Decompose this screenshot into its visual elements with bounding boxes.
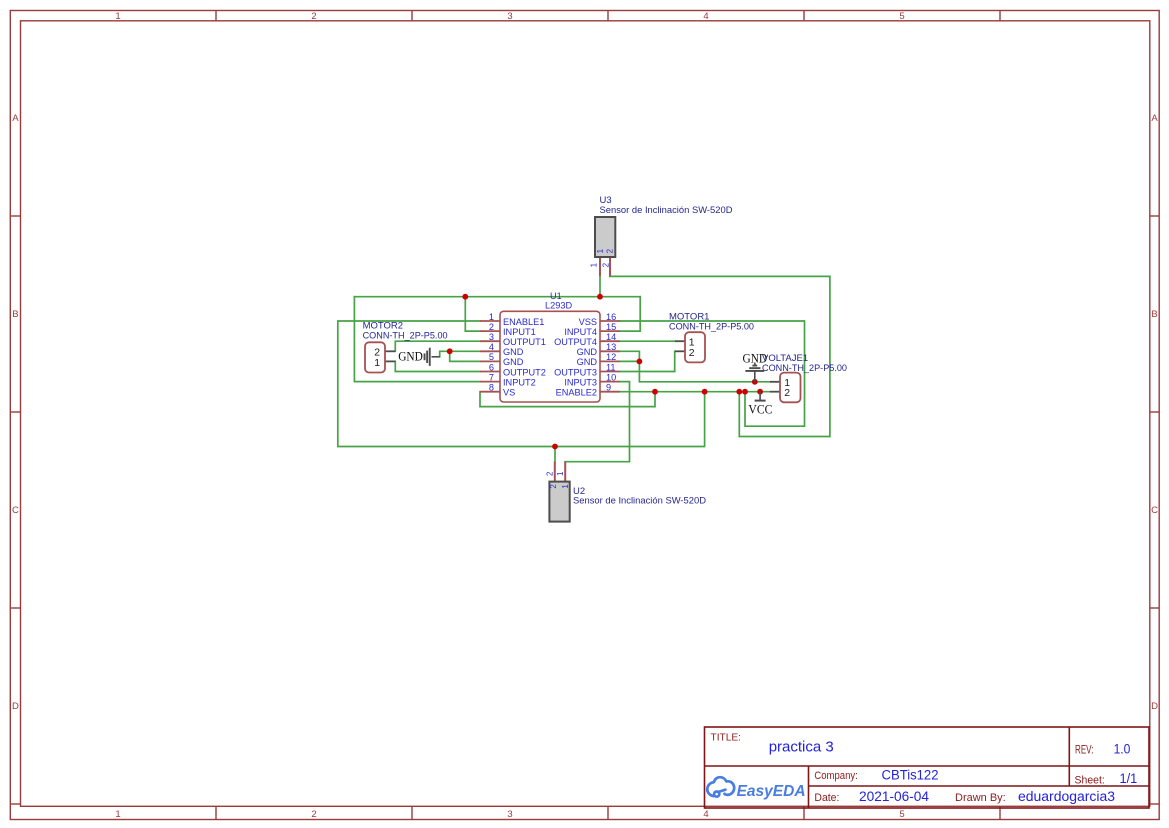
WIRES xyxy=(338,276,830,462)
svg-text:3: 3 xyxy=(507,809,512,820)
svg-text:6: 6 xyxy=(489,362,494,372)
svg-text:2: 2 xyxy=(545,471,554,476)
wire VCC row pin9 to VOLTAJE1 pin2 xyxy=(620,391,770,393)
svg-text:ENABLE2: ENABLE2 xyxy=(556,388,597,398)
svg-text:VSS: VSS xyxy=(579,317,597,327)
svg-text:CONN-TH_2P-P5.00: CONN-TH_2P-P5.00 xyxy=(669,321,754,332)
svg-text:B: B xyxy=(12,309,18,320)
junction dots xyxy=(447,294,763,450)
svg-text:D: D xyxy=(12,701,19,712)
node rail-U3pin1 xyxy=(597,294,603,300)
svg-text:2: 2 xyxy=(784,387,790,399)
svg-text:12: 12 xyxy=(606,352,616,362)
svg-text:3: 3 xyxy=(507,11,512,22)
wire INPUT1 pin2 branch xyxy=(465,297,480,331)
svg-text:14: 14 xyxy=(606,332,616,342)
svg-text:15: 15 xyxy=(606,322,616,332)
node bottomrail-U2pin2 xyxy=(552,444,558,450)
svg-text:9: 9 xyxy=(606,383,611,393)
sensor U2 xyxy=(545,462,706,522)
wire U3 pin1 branch xyxy=(599,276,601,297)
svg-text:5: 5 xyxy=(489,352,494,362)
connector MOTOR1 xyxy=(669,312,754,363)
svg-text:13: 13 xyxy=(606,342,616,352)
svg-text:Sensor de Inclinación SW-520D: Sensor de Inclinación SW-520D xyxy=(573,496,706,507)
svg-text:Sensor de Inclinación SW-520D: Sensor de Inclinación SW-520D xyxy=(600,205,733,216)
svg-text:INPUT4: INPUT4 xyxy=(564,327,597,337)
wire INPUT2 pin7 to rail xyxy=(354,297,480,382)
svg-text:1: 1 xyxy=(115,11,120,22)
svg-text:REV:: REV: xyxy=(1075,744,1094,757)
svg-text:INPUT3: INPUT3 xyxy=(564,377,597,387)
svg-text:1.0: 1.0 xyxy=(1114,742,1131,757)
svg-text:practica 3: practica 3 xyxy=(769,738,834,755)
node GND-pin4 xyxy=(447,348,453,354)
svg-text:GND: GND xyxy=(503,347,524,357)
wire U2 pin2 branch xyxy=(554,447,556,462)
svg-text:2: 2 xyxy=(689,347,695,359)
wire pin12 branch xyxy=(620,360,639,362)
svg-text:2: 2 xyxy=(311,11,316,22)
node GNDflag-VOLTAJE1pin1 xyxy=(752,379,758,385)
wire left GND to pin5 xyxy=(450,351,480,361)
connector VOLTAJE1 xyxy=(762,353,847,402)
svg-text:INPUT2: INPUT2 xyxy=(503,377,536,387)
svg-text:4: 4 xyxy=(489,342,494,352)
svg-text:16: 16 xyxy=(606,312,616,322)
svg-text:OUTPUT4: OUTPUT4 xyxy=(554,337,597,347)
svg-text:2: 2 xyxy=(601,262,610,267)
svg-text:1: 1 xyxy=(374,357,380,369)
svg-text:10: 10 xyxy=(606,372,616,382)
svg-text:1: 1 xyxy=(489,312,494,322)
svg-text:GND: GND xyxy=(398,350,423,364)
svg-text:TITLE:: TITLE: xyxy=(711,732,742,743)
svg-text:4: 4 xyxy=(703,11,708,22)
svg-text:4: 4 xyxy=(703,809,708,820)
svg-text:D: D xyxy=(1151,701,1158,712)
svg-text:11: 11 xyxy=(606,362,616,372)
svg-text:OUTPUT2: OUTPUT2 xyxy=(503,367,546,377)
svg-text:2021-06-04: 2021-06-04 xyxy=(859,789,930,804)
svg-text:Sheet:: Sheet: xyxy=(1075,775,1105,787)
svg-text:GND: GND xyxy=(577,357,598,367)
wire GND pins 13-12 to VOLTAJE1 pin1 xyxy=(620,351,770,382)
svg-text:VS: VS xyxy=(503,388,515,398)
svg-text:1/1: 1/1 xyxy=(1120,771,1138,786)
wire VSS loop xyxy=(620,321,805,426)
svg-text:OUTPUT3: OUTPUT3 xyxy=(554,367,597,377)
ground GND (left flag) xyxy=(398,348,440,366)
svg-text:A: A xyxy=(12,113,19,124)
svg-text:5: 5 xyxy=(899,11,904,22)
svg-text:7: 7 xyxy=(489,372,494,382)
svg-text:C: C xyxy=(1151,505,1158,516)
wire top rail xyxy=(354,296,640,298)
svg-text:GND: GND xyxy=(503,357,524,367)
op IC U1 L293D xyxy=(480,291,620,402)
svg-text:2: 2 xyxy=(311,809,316,820)
svg-text:Drawn By:: Drawn By: xyxy=(955,792,1006,804)
svg-text:OUTPUT1: OUTPUT1 xyxy=(503,337,546,347)
svg-text:ENABLE1: ENABLE1 xyxy=(503,317,544,327)
wire INPUT3 to U2 pin1 xyxy=(565,382,629,462)
node VCCrow-VCCflag xyxy=(757,389,763,395)
svg-text:VCC: VCC xyxy=(748,402,772,416)
svg-text:5: 5 xyxy=(899,809,904,820)
node VCCrow-VS xyxy=(652,389,658,395)
node pin13-pin12 xyxy=(637,359,643,365)
svg-text:CONN-TH_2P-P5.00: CONN-TH_2P-P5.00 xyxy=(363,331,448,342)
node VCCrow-U3loop xyxy=(736,389,742,395)
ground GND (right flag) xyxy=(743,351,768,381)
power VCC flag xyxy=(748,392,772,417)
svg-text:A: A xyxy=(1151,113,1158,124)
svg-text:1: 1 xyxy=(596,248,605,253)
wire OUTPUT3 to MOTOR1 pin2 xyxy=(620,351,675,371)
svg-text:GND: GND xyxy=(577,347,598,357)
wire MOTOR2 pin1 to OUTPUT2 xyxy=(395,361,480,371)
svg-text:EasyEDA: EasyEDA xyxy=(737,783,806,800)
svg-text:8: 8 xyxy=(489,383,494,393)
wire OUTPUT4 to MOTOR1 pin1 xyxy=(620,340,675,342)
wire VS loop xyxy=(480,392,655,407)
node VCCrow-VSSloop xyxy=(742,389,748,395)
wire ENABLE1 loop xyxy=(338,321,705,447)
svg-text:B: B xyxy=(1151,309,1157,320)
svg-text:1: 1 xyxy=(115,809,120,820)
node VCCrow-ENABLE1 xyxy=(702,389,708,395)
svg-text:2: 2 xyxy=(606,248,615,253)
svg-text:CBTis122: CBTis122 xyxy=(882,767,939,782)
wire INPUT4 pin15 branch xyxy=(620,297,640,331)
connector MOTOR2 xyxy=(363,321,448,373)
svg-text:CONN-TH_2P-P5.00: CONN-TH_2P-P5.00 xyxy=(762,363,847,374)
svg-text:INPUT1: INPUT1 xyxy=(503,327,536,337)
wire left GND to pin4 xyxy=(440,351,480,357)
svg-text:Date:: Date: xyxy=(814,792,839,804)
svg-text:C: C xyxy=(12,505,19,516)
svg-text:1: 1 xyxy=(556,471,565,476)
node rail-INPUT1 xyxy=(462,294,468,300)
svg-text:Company:: Company: xyxy=(814,770,857,782)
svg-text:L293D: L293D xyxy=(545,301,572,311)
wire U3 pin2 loop xyxy=(610,276,830,436)
svg-text:2: 2 xyxy=(549,484,558,489)
title block xyxy=(705,727,1150,808)
svg-text:1: 1 xyxy=(589,262,598,267)
svg-text:1: 1 xyxy=(561,484,570,489)
sensor U3 xyxy=(589,195,732,276)
svg-text:eduardogarcia3: eduardogarcia3 xyxy=(1018,789,1115,804)
svg-text:3: 3 xyxy=(489,332,494,342)
EasyEDA logo xyxy=(707,777,805,800)
wire MOTOR2 pin2 to OUTPUT1 xyxy=(395,341,480,351)
svg-text:2: 2 xyxy=(489,322,494,332)
